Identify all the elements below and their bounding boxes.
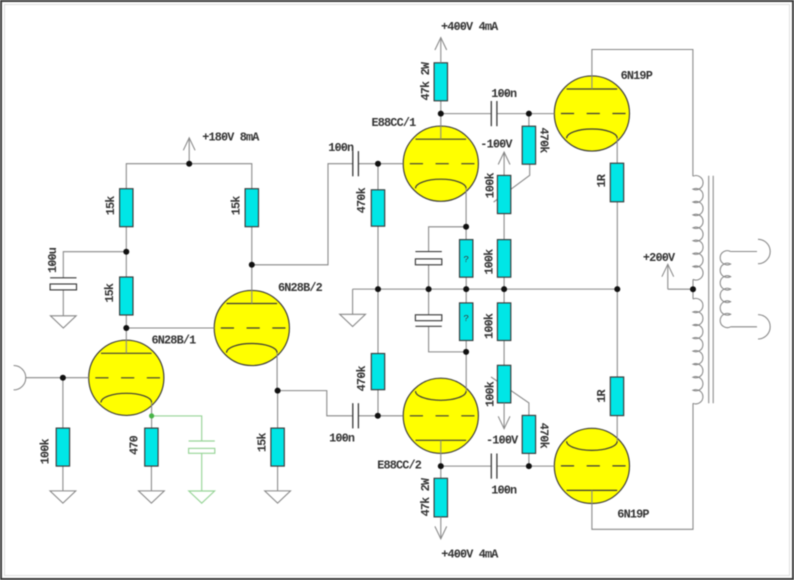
power arrow +400V top <box>435 38 447 63</box>
power arrow -100V top <box>498 152 510 164</box>
green wire cathode bypass <box>152 416 202 441</box>
svg-text:-100V: -100V <box>480 137 513 151</box>
svg-text:E88CC/1: E88CC/1 <box>372 116 417 130</box>
output terminal bottom <box>758 315 770 339</box>
capacitor 100u electrolytic <box>50 278 76 290</box>
svg-text:6N19P: 6N19P <box>617 508 649 522</box>
resistor 470k U2 grid leak value label 470k <box>355 366 369 392</box>
svg-text:6N19P: 6N19P <box>621 69 653 83</box>
wire input to V1 grid <box>26 377 89 379</box>
svg-text:15k: 15k <box>103 283 117 302</box>
wire V2 cathode down to 15k <box>276 353 279 428</box>
wire V1 cathode to 470 <box>151 402 153 428</box>
wire 100k to 100k pot lower <box>503 341 505 366</box>
power arrow +180V <box>183 138 195 164</box>
svg-text:100k: 100k <box>483 313 497 339</box>
wire U1 plate to node B <box>440 114 442 140</box>
wire 47k to node B <box>440 101 442 114</box>
transformer primary winding upper half <box>693 176 703 280</box>
resistor 1R P1 cathode value label 1R <box>595 173 609 187</box>
svg-text:E88CC/2: E88CC/2 <box>377 459 422 473</box>
resistor 470k bias feed bottom <box>522 415 535 453</box>
input terminal <box>14 366 26 390</box>
ground 100u <box>50 316 76 328</box>
wire 1R lower to P2 cathode <box>616 416 618 442</box>
wire ? resistor to U2 cathode <box>465 341 467 392</box>
junction V2 cathode node <box>275 388 281 394</box>
junction center rail ? column <box>463 286 469 292</box>
svg-text:+200V: +200V <box>643 251 676 265</box>
resistor 470k U1 grid leak <box>371 190 384 226</box>
ground green bypass <box>189 491 215 503</box>
resistor 100k upper value label 100k <box>483 249 497 275</box>
potentiometer 100k bias bottom <box>497 365 510 403</box>
junction U1 grid node <box>375 161 381 167</box>
wire V2 cathode node to 100n lower <box>278 391 353 416</box>
junction node C <box>526 111 532 117</box>
resistor ? lower label <box>463 313 469 324</box>
wire between 15k resistors left column <box>125 227 127 277</box>
triode P1 6N19P top <box>554 76 629 151</box>
junction node B <box>438 111 444 117</box>
resistor 1R P1 cathode <box>610 163 623 202</box>
svg-text:?: ? <box>463 313 469 324</box>
junction node F <box>526 463 532 469</box>
svg-text:100k: 100k <box>38 439 52 465</box>
wire 100k to ground <box>62 466 64 491</box>
junction V1 plate node <box>123 325 129 331</box>
wire 100n to U1 grid node <box>358 163 403 165</box>
resistor ? upper <box>460 240 473 278</box>
wire node G down to 47k <box>440 466 442 478</box>
wire V2 plate node to coupling cap 100n <box>252 164 353 265</box>
capacitor film lower (inverted) <box>415 315 441 327</box>
wire 100n top to node C <box>497 113 554 115</box>
svg-text:+400V 4mA: +400V 4mA <box>441 20 499 34</box>
wire 15k to ground bottom <box>277 466 279 491</box>
svg-text:6N28B/2: 6N28B/2 <box>278 281 323 295</box>
junction transformer center tap <box>690 286 696 292</box>
wire 15k to V1 plate <box>125 315 127 354</box>
label 6N19P bottom <box>617 508 649 522</box>
triode U2 E88CC/2 (inverted) <box>403 378 478 453</box>
junction +180V bus <box>186 161 192 167</box>
wire -100V arrow to 100k pot <box>503 152 505 175</box>
junction center rail 100k column <box>501 286 507 292</box>
svg-text:?: ? <box>463 254 469 265</box>
potentiometer 100k bias bottom value label 100k <box>483 381 497 407</box>
wire input node down to 100k <box>62 378 64 428</box>
wire 470k to node F <box>528 453 530 466</box>
svg-text:470: 470 <box>127 435 141 454</box>
wire node D to top film cap <box>429 227 467 252</box>
resistor 470k U2 grid leak <box>371 354 384 390</box>
resistor 470k bias feed top <box>522 126 535 164</box>
resistor 15k V2 plate load <box>245 189 258 227</box>
wire bottom film cap to center rail <box>428 289 430 315</box>
wire U2 plate to node G <box>440 440 442 466</box>
svg-text:100k: 100k <box>483 381 497 407</box>
green wire cap to green ground <box>201 453 203 491</box>
capacitor 100n output coupling bottom <box>491 454 497 479</box>
svg-text:47k 2W: 47k 2W <box>419 477 433 516</box>
wire 100n bottom to node F <box>497 465 554 467</box>
svg-text:470k: 470k <box>355 366 369 392</box>
wire 100k pot to 100k <box>503 214 505 240</box>
label E88CC/2 <box>377 459 422 473</box>
label +400V 4mA bottom <box>441 547 499 561</box>
resistor 100k upper <box>497 240 510 278</box>
wire transformer primary center tap <box>692 279 694 299</box>
wire top film cap to center rail <box>428 265 430 289</box>
wire node E to bottom film cap <box>429 326 467 352</box>
ground 470 <box>139 491 165 503</box>
resistor 47k 2W U1 plate <box>434 63 447 101</box>
wire 100k resistors across center rail <box>503 277 505 303</box>
capacitor 100n input coupling bottom <box>353 403 359 428</box>
svg-text:15k: 15k <box>104 196 118 215</box>
resistor 15k V2 cathode <box>271 428 284 466</box>
wire center rail to 1R lower <box>616 289 618 377</box>
svg-text:1R: 1R <box>595 389 609 403</box>
ground center rail <box>340 314 366 326</box>
wire 100n to U2 grid node <box>358 415 403 417</box>
svg-text:+400V 4mA: +400V 4mA <box>441 547 499 561</box>
junction center rail 470k <box>375 286 381 292</box>
label -100V top <box>480 137 513 151</box>
capacitor 100n output top label <box>491 87 517 101</box>
svg-text:6N28B/1: 6N28B/1 <box>152 333 197 347</box>
junction U2 grid node <box>375 413 381 419</box>
svg-text:100k: 100k <box>483 173 497 199</box>
ground input <box>50 491 76 503</box>
label +400V 4mA top <box>441 20 499 34</box>
resistor 15k V1 plate load <box>120 189 133 227</box>
svg-text:100n: 100n <box>491 483 517 497</box>
capacitor film upper <box>415 252 441 265</box>
label 6N28B/1 <box>152 333 197 347</box>
label 6N19P top <box>621 69 653 83</box>
junction center rail film caps <box>426 286 432 292</box>
resistor 470k bias feed bottom value label 470k <box>536 423 550 449</box>
wire 470k lower to U2 grid node <box>377 390 379 416</box>
wire pot wiper bottom diagonal <box>491 377 529 416</box>
wire P1 cathode to 1R <box>616 138 618 163</box>
wire center rail to 470k lower <box>377 289 379 353</box>
wire node B to 100n top <box>441 113 492 115</box>
resistor 15k V2 cathode value label 15k <box>255 433 269 452</box>
label E88CC/1 <box>372 116 417 130</box>
wire secondary top lead <box>731 251 757 253</box>
capacitor 100n output coupling top <box>491 101 497 126</box>
svg-text:470k: 470k <box>536 127 550 153</box>
wire center rail ground stub <box>352 289 354 314</box>
resistor 15k decoupling value label 15k <box>103 283 117 302</box>
junction node D <box>463 224 469 230</box>
output terminal top <box>758 239 770 263</box>
resistor 100k grid input <box>56 428 69 466</box>
wire V1 plate node to V2 grid <box>126 327 214 329</box>
resistor 47k 2W U2 plate <box>434 478 447 517</box>
wire 100u cap to ground <box>62 290 64 316</box>
wire 15k to V2 plate <box>251 227 253 304</box>
svg-text:100n: 100n <box>491 87 517 101</box>
svg-text:+180V 8mA: +180V 8mA <box>202 130 260 144</box>
resistor ? upper label <box>463 254 469 265</box>
wire secondary bottom lead <box>731 326 757 328</box>
junction V2 plate node <box>249 262 255 268</box>
power arrow +200V <box>662 264 674 289</box>
resistor 470k U1 grid leak value label 470k <box>355 188 369 214</box>
resistor 1R P2 cathode value label 1R <box>595 389 609 403</box>
label 6N28B/2 <box>278 281 323 295</box>
wire ? resistors across center rail <box>465 277 467 303</box>
svg-text:1R: 1R <box>595 173 609 187</box>
resistor 100k lower value label 100k <box>483 313 497 339</box>
resistor 15k decoupling <box>120 277 133 315</box>
wire +180V supply bus <box>126 164 252 189</box>
wire 1R to center rail <box>616 202 618 289</box>
svg-text:470k: 470k <box>355 188 369 214</box>
wire node G to 100n bottom <box>441 465 492 467</box>
junction green cathode tap <box>149 413 154 418</box>
svg-text:-100V: -100V <box>486 433 519 447</box>
label -100V bottom <box>486 433 519 447</box>
wire 470k to center rail <box>377 226 379 289</box>
resistor 470k bias feed top value label 470k <box>536 127 550 153</box>
triode V2 6N28B/2 <box>214 290 289 365</box>
resistor 47k 2W U2 plate value label 47k 2W <box>419 477 433 516</box>
potentiometer 100k bias top value label 100k <box>483 173 497 199</box>
junction input node <box>60 375 66 381</box>
capacitor 100u label <box>46 247 60 273</box>
resistor 100k lower <box>497 303 510 341</box>
wire 470 to ground <box>150 466 152 491</box>
resistor 470 V1 cathode <box>145 428 158 466</box>
resistor 470 V1 cathode value label 470 <box>127 435 141 454</box>
junction center rail 1R <box>614 286 620 292</box>
wire node C down to 470k <box>528 114 530 127</box>
triode V1 6N28B/1 <box>89 340 164 415</box>
power arrow -100V bottom <box>498 403 510 429</box>
resistor ? lower <box>460 303 473 341</box>
svg-text:100n: 100n <box>328 141 354 155</box>
resistor 15k V2 plate load value label 15k <box>230 196 244 215</box>
resistor 15k V1 plate load value label 15k <box>104 196 118 215</box>
triode U1 E88CC/1 <box>403 126 478 201</box>
wire node A to 100u cap <box>63 252 126 278</box>
svg-text:15k: 15k <box>230 196 244 215</box>
resistor 47k 2W U1 plate value label 47k 2W <box>419 61 433 100</box>
transformer core <box>709 176 714 403</box>
junction node E <box>463 349 469 355</box>
svg-text:15k: 15k <box>255 433 269 452</box>
capacitor green cathode bypass <box>189 441 215 453</box>
label +180V 8mA <box>202 130 260 144</box>
capacitor 100n input coupling top <box>353 151 359 176</box>
junction node A <box>123 249 129 255</box>
potentiometer 100k bias top <box>497 175 510 213</box>
wire center rail <box>353 288 618 290</box>
wire U1 cathode to ? resistor <box>465 188 467 239</box>
transformer primary winding lower half <box>693 298 703 403</box>
resistor 100k grid input value label 100k <box>38 439 52 465</box>
wire P1 plate to transformer top <box>592 50 693 177</box>
capacitor 100n input bottom label <box>329 431 355 445</box>
capacitor 100n input top label <box>328 141 354 155</box>
capacitor 100n output bottom label <box>491 483 517 497</box>
svg-text:47k 2W: 47k 2W <box>419 61 433 100</box>
label +200V <box>643 251 676 265</box>
svg-text:100k: 100k <box>483 249 497 275</box>
triode P2 6N19P bottom (inverted) <box>554 428 629 503</box>
svg-text:100u: 100u <box>46 247 60 273</box>
power arrow +400V bottom <box>435 517 447 539</box>
wire +200V to center tap <box>668 288 693 290</box>
transformer secondary winding <box>720 251 730 328</box>
wire 470k top-left column <box>377 164 379 190</box>
wire pot wiper top diagonal <box>494 164 530 202</box>
resistor 1R P2 cathode <box>610 377 623 416</box>
junction node G <box>438 463 444 469</box>
svg-text:470k: 470k <box>536 423 550 449</box>
svg-text:100n: 100n <box>329 431 355 445</box>
wire P2 plate to transformer bottom <box>592 403 693 529</box>
ground 15k cathode <box>265 491 291 503</box>
